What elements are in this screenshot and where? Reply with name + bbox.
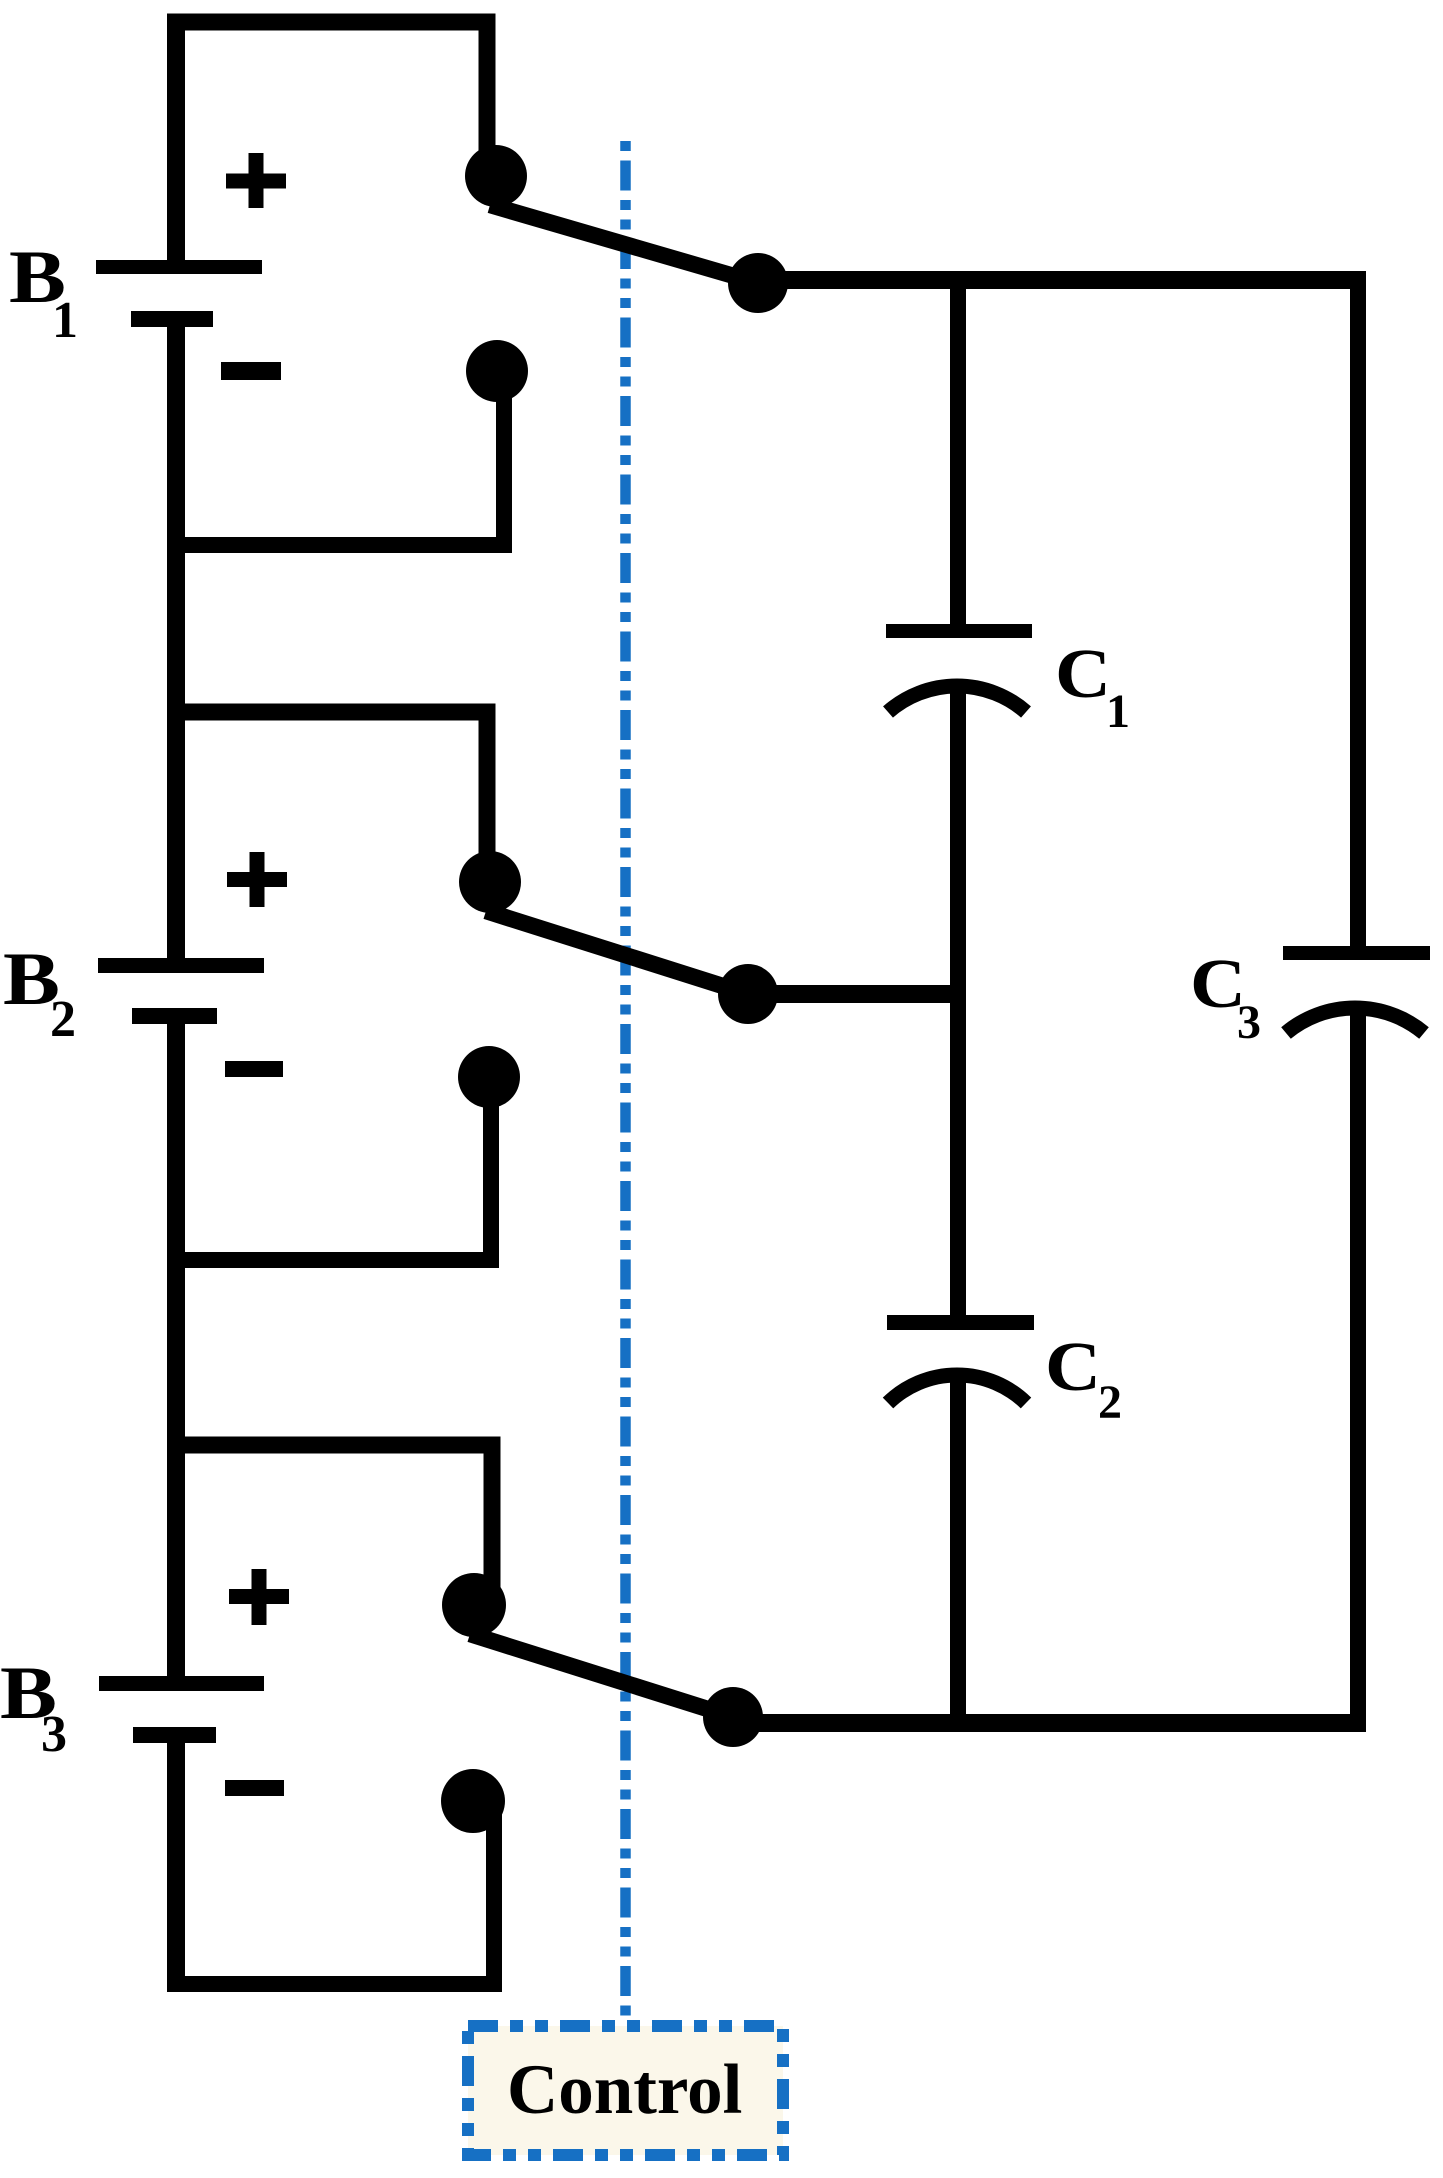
wire B3 top loop xyxy=(167,1445,492,1602)
wire left rail segment 1 xyxy=(167,14,185,267)
switch S2 throw dot xyxy=(718,964,778,1024)
svg-text:3: 3 xyxy=(41,1706,67,1763)
wire C2 bottom lead xyxy=(950,1376,966,1723)
switch S1 pole dot xyxy=(465,145,527,207)
battery B3 minus sign xyxy=(225,1780,284,1796)
capacitor C3 xyxy=(1283,946,1430,1033)
wire B3 bottom loop xyxy=(167,1802,494,1984)
wire middle output xyxy=(748,985,966,1003)
wire left rail segment 2 xyxy=(167,319,185,966)
battery B3 xyxy=(99,1676,264,1743)
battery B2 xyxy=(98,958,264,1024)
battery B1 minus sign xyxy=(221,362,281,380)
wire C1 top lead xyxy=(950,280,966,631)
control box xyxy=(468,2026,783,2155)
svg-text:1: 1 xyxy=(52,292,78,349)
wire right rail top xyxy=(1350,271,1366,946)
label B3 xyxy=(0,1652,67,1763)
label C1 xyxy=(1055,636,1130,738)
switch S1 NC dot xyxy=(466,340,528,402)
wire B1 top loop xyxy=(167,22,487,172)
battery B1 xyxy=(96,260,262,327)
battery B2 minus sign xyxy=(225,1061,283,1077)
switch S2 NC dot xyxy=(458,1046,520,1108)
control line (blue dashed vertical) xyxy=(620,141,631,2022)
wire B2 bottom loop xyxy=(167,1078,491,1260)
wire right rail bottom xyxy=(1350,1006,1366,1723)
capacitor C1 xyxy=(886,624,1032,712)
wire left rail segment 3 xyxy=(167,1016,185,1684)
switch S2 pole dot xyxy=(459,851,521,913)
svg-text:1: 1 xyxy=(1106,685,1130,738)
battery B3 plus sign xyxy=(229,1569,289,1625)
svg-text:C: C xyxy=(1045,1329,1101,1406)
svg-text:C: C xyxy=(1055,636,1111,713)
wire bottom output xyxy=(733,1714,1366,1732)
label C2 xyxy=(1045,1329,1122,1429)
label C3 xyxy=(1190,946,1261,1049)
switch S1 arm xyxy=(490,205,758,283)
switch S3 NC dot xyxy=(441,1769,505,1833)
wire C1-C2 rail xyxy=(950,684,966,1316)
svg-text:3: 3 xyxy=(1237,996,1261,1049)
wire B2 top loop xyxy=(167,712,487,878)
wire top output xyxy=(758,271,1366,289)
capacitor C2 xyxy=(887,1315,1034,1403)
label B1 xyxy=(9,236,78,349)
wire left rail segment 4 xyxy=(167,1735,185,1992)
battery B1 plus sign xyxy=(226,153,286,208)
svg-text:2: 2 xyxy=(50,991,76,1048)
switch S2 arm xyxy=(486,911,748,994)
label B2 xyxy=(3,938,76,1048)
switch S3 throw dot xyxy=(703,1687,763,1747)
svg-text:Control: Control xyxy=(507,2051,742,2129)
battery B2 plus sign xyxy=(227,852,287,907)
switch S3 arm xyxy=(470,1634,733,1717)
wire B1 bottom loop xyxy=(167,372,504,545)
switch S3 pole dot xyxy=(442,1573,506,1637)
svg-text:2: 2 xyxy=(1098,1376,1122,1429)
switch S1 throw dot xyxy=(728,253,788,313)
